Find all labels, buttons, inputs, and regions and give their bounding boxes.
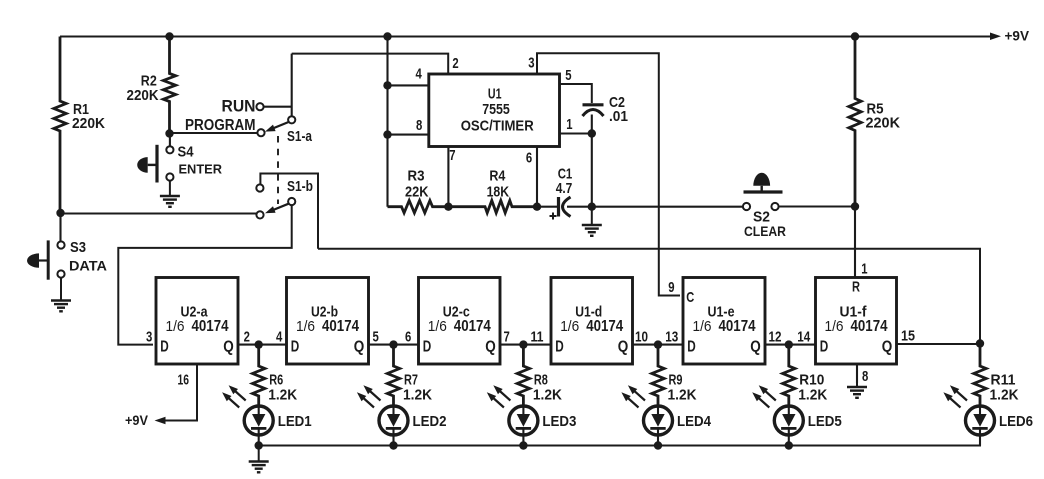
svg-text:1/6: 1/6 bbox=[560, 318, 579, 335]
svg-text:S3: S3 bbox=[70, 239, 86, 256]
wire S1-a to pin 2 of U1 bbox=[292, 54, 449, 74]
flip-flop U2-a 1/6 40174 bbox=[156, 278, 238, 365]
svg-text:CLEAR: CLEAR bbox=[744, 223, 786, 239]
wire Q to D chain at x788 bbox=[765, 344, 816, 346]
resistor R11 bbox=[974, 345, 986, 406]
svg-text:+9V: +9V bbox=[125, 412, 149, 428]
node bottom rail junction x258 bbox=[255, 441, 263, 449]
node bottom rail junction x523 bbox=[519, 441, 527, 449]
wire junction to S3 bbox=[59, 213, 61, 242]
LED LED3 light arrows bbox=[490, 395, 504, 408]
svg-text:D: D bbox=[555, 339, 564, 356]
flip-flop U2-c 1/6 40174 bbox=[419, 278, 501, 365]
switch S1-a bbox=[288, 116, 295, 123]
svg-text:2: 2 bbox=[244, 329, 250, 346]
pin 4 stub bbox=[388, 84, 429, 86]
wire Q15 of U1-f to feedback column bbox=[897, 343, 981, 345]
node junction pin7/R3/R4 bbox=[444, 203, 452, 211]
svg-text:40174: 40174 bbox=[586, 318, 623, 335]
resistor R7 bbox=[387, 345, 399, 406]
svg-text:40174: 40174 bbox=[719, 318, 756, 335]
pin 7 wire bbox=[447, 147, 449, 207]
node bottom rail junction x393 bbox=[389, 441, 397, 449]
svg-text:11: 11 bbox=[531, 329, 544, 346]
wire C2 to ground junction bbox=[591, 134, 593, 207]
svg-text:D: D bbox=[820, 339, 829, 356]
capacitor C1 bbox=[537, 206, 557, 208]
wire S1-a riser to pin 2 link bbox=[291, 54, 293, 117]
wire LED1 to bottom rail bbox=[258, 435, 260, 446]
svg-text:8: 8 bbox=[416, 117, 422, 134]
svg-text:40174: 40174 bbox=[454, 318, 491, 335]
svg-text:S4: S4 bbox=[178, 144, 195, 161]
svg-text:40174: 40174 bbox=[851, 318, 888, 335]
wire S1-b pole down and left bbox=[118, 205, 291, 345]
svg-text:1: 1 bbox=[861, 261, 867, 278]
LED LED6 light arrows bbox=[947, 395, 961, 408]
svg-text:7: 7 bbox=[449, 147, 455, 164]
svg-text:18K: 18K bbox=[487, 183, 510, 200]
node bottom rail junction x788 bbox=[785, 441, 793, 449]
wire mechanical link dashed S1 bbox=[277, 136, 279, 204]
wire ground junction to S2 bbox=[592, 206, 743, 208]
resistor R5 bbox=[849, 37, 861, 207]
svg-text:10: 10 bbox=[635, 329, 648, 346]
svg-text:D: D bbox=[291, 339, 300, 356]
svg-text:220K: 220K bbox=[127, 87, 159, 104]
pin 5 stub and wire to C2 bbox=[560, 84, 592, 103]
svg-text:7555: 7555 bbox=[482, 101, 510, 118]
svg-text:U1: U1 bbox=[488, 86, 502, 103]
svg-text:1/6: 1/6 bbox=[825, 318, 844, 335]
svg-text:Q: Q bbox=[618, 339, 629, 356]
LED LED3 bbox=[509, 406, 538, 435]
wire LED2 to bottom rail bbox=[392, 435, 394, 446]
svg-text:OSC/TIMER: OSC/TIMER bbox=[461, 118, 534, 135]
resistor R2 bbox=[163, 37, 175, 134]
wire Q to D chain at x658 bbox=[633, 344, 684, 346]
pin 8 stub bbox=[388, 134, 429, 136]
node junction R2/S4/PROGRAM bbox=[165, 129, 173, 137]
svg-text:3: 3 bbox=[528, 54, 534, 71]
LED LED1 bbox=[244, 406, 273, 435]
wire LED4 to bottom rail bbox=[657, 435, 659, 446]
node junction pin1/C2 bbox=[588, 129, 596, 137]
LED LED1 light arrows bbox=[225, 395, 239, 408]
node junction R2 top rail bbox=[165, 32, 173, 40]
wire S1-b upper contact to feedback line bbox=[260, 174, 318, 249]
svg-text:22K: 22K bbox=[405, 183, 429, 200]
node junction pin6/R4/C1 bbox=[533, 203, 541, 211]
svg-text:13: 13 bbox=[665, 329, 678, 346]
resistor R10 bbox=[783, 345, 795, 406]
svg-text:C: C bbox=[686, 289, 694, 306]
svg-text:4: 4 bbox=[276, 329, 283, 346]
wire S2 to R5 junction bbox=[779, 205, 856, 207]
svg-text:8: 8 bbox=[862, 368, 868, 385]
svg-text:1/6: 1/6 bbox=[166, 318, 185, 335]
svg-text:7: 7 bbox=[504, 329, 510, 346]
node junction x393 bbox=[389, 340, 397, 348]
LED LED4 light arrows bbox=[625, 395, 639, 408]
pin 1 stub bbox=[560, 132, 592, 134]
svg-text:LED5: LED5 bbox=[808, 413, 842, 430]
node junction Q15/R11/feedback bbox=[976, 339, 984, 347]
svg-text:D: D bbox=[423, 339, 432, 356]
pushbutton S3 DATA bbox=[57, 241, 64, 248]
node bottom rail junction x658 bbox=[654, 441, 662, 449]
node RUN contact bbox=[256, 103, 263, 110]
svg-text:Q: Q bbox=[354, 339, 365, 356]
svg-text:1.2K: 1.2K bbox=[798, 387, 827, 404]
svg-text:LED6: LED6 bbox=[999, 413, 1033, 430]
svg-text:220K: 220K bbox=[866, 115, 901, 132]
svg-text:LED2: LED2 bbox=[413, 413, 447, 430]
svg-text:15: 15 bbox=[901, 328, 915, 345]
node junction rail x387 bbox=[383, 32, 391, 40]
flip-flop U1-e 1/6 40174 bbox=[683, 278, 765, 365]
ground below S3 bbox=[60, 277, 62, 300]
node junction R5 top rail bbox=[851, 32, 859, 40]
node junction x658 bbox=[654, 340, 662, 348]
svg-text:14: 14 bbox=[797, 329, 811, 346]
wire R2 junction to S4 bbox=[169, 134, 171, 147]
LED LED5 light arrows bbox=[755, 395, 769, 408]
svg-text:PROGRAM: PROGRAM bbox=[185, 117, 256, 134]
svg-text:Q: Q bbox=[882, 339, 893, 356]
pushbutton S4 ENTER bbox=[166, 146, 173, 153]
svg-text:1.2K: 1.2K bbox=[403, 387, 432, 404]
svg-text:LED3: LED3 bbox=[542, 413, 576, 430]
node junction x258 bbox=[255, 340, 263, 348]
svg-text:1/6: 1/6 bbox=[693, 318, 712, 335]
svg-text:D: D bbox=[687, 339, 696, 356]
svg-text:LED4: LED4 bbox=[677, 413, 712, 430]
node +9V arrow bbox=[990, 33, 1001, 41]
svg-text:4.7: 4.7 bbox=[556, 180, 573, 197]
svg-text:Q: Q bbox=[750, 339, 761, 356]
ground below S4 bbox=[169, 181, 171, 196]
svg-text:1/6: 1/6 bbox=[296, 318, 315, 335]
pin 8 wire of U1-f to ground bbox=[856, 364, 858, 383]
wire junction to S1-b lower contact bbox=[61, 212, 257, 214]
svg-text:RUN: RUN bbox=[222, 97, 256, 116]
LED LED2 bbox=[379, 406, 408, 435]
svg-text:1/6: 1/6 bbox=[428, 318, 447, 335]
wire +9V top rail bbox=[60, 35, 993, 37]
node junction C1/ground/S2 line bbox=[588, 203, 596, 211]
svg-text:5: 5 bbox=[373, 329, 379, 346]
LED LED4 bbox=[644, 406, 673, 435]
pin 3 wire to clock line bbox=[537, 53, 680, 295]
pin 16 wire of U2-a to +9V bbox=[165, 364, 197, 421]
resistor R6 bbox=[253, 345, 265, 406]
pushbutton S2 CLEAR bbox=[743, 203, 750, 210]
svg-text:R3: R3 bbox=[408, 167, 425, 184]
node PROGRAM contact bbox=[257, 129, 264, 136]
node junction x788 bbox=[785, 340, 793, 348]
node junction R5/S2/reset bbox=[851, 202, 859, 210]
svg-text:LED1: LED1 bbox=[278, 413, 312, 430]
wire LED3 to bottom rail bbox=[522, 435, 524, 446]
wire R5 junction to R pin of U1-f bbox=[854, 207, 856, 278]
pin 6 wire bbox=[536, 147, 538, 207]
flip-flop U1-d 1/6 40174 bbox=[551, 278, 633, 365]
svg-text:D: D bbox=[160, 339, 169, 356]
svg-text:12: 12 bbox=[769, 329, 782, 346]
svg-text:R4: R4 bbox=[489, 167, 506, 184]
svg-text:2: 2 bbox=[452, 55, 458, 72]
svg-text:16: 16 bbox=[178, 371, 190, 388]
svg-text:S1-a: S1-a bbox=[287, 128, 313, 145]
capacitor C2 bbox=[583, 103, 604, 106]
resistor R3 bbox=[388, 201, 449, 213]
svg-text:40174: 40174 bbox=[192, 318, 229, 335]
wire PROGRAM contact to R2 junction bbox=[171, 132, 258, 134]
wire feedback line to LED6 column bbox=[318, 249, 980, 342]
LED LED5 bbox=[774, 406, 803, 435]
svg-text:S1-b: S1-b bbox=[287, 178, 313, 195]
wire RUN contact to S1-a riser bbox=[264, 106, 292, 108]
svg-text:.01: .01 bbox=[609, 108, 628, 125]
svg-text:1.2K: 1.2K bbox=[990, 387, 1019, 404]
wire Q to D chain at x523 bbox=[500, 344, 551, 346]
resistor R1 bbox=[54, 37, 66, 214]
LED LED6 bbox=[966, 406, 995, 435]
wire LED6 to bottom rail bbox=[979, 435, 981, 446]
svg-text:9: 9 bbox=[668, 279, 674, 296]
ground below C1 bbox=[591, 207, 593, 225]
svg-text:4: 4 bbox=[416, 66, 423, 83]
wire LED bottom rail bbox=[259, 434, 980, 446]
resistor R9 bbox=[652, 345, 664, 406]
LED LED2 light arrows bbox=[360, 395, 374, 408]
svg-text:1: 1 bbox=[566, 116, 572, 133]
ground below LED1 bbox=[258, 446, 260, 462]
node junction R1/S3/S1-b bbox=[56, 209, 64, 217]
svg-text:ENTER: ENTER bbox=[179, 162, 223, 177]
node junction x523 bbox=[519, 340, 527, 348]
svg-text:DATA: DATA bbox=[69, 258, 107, 274]
svg-text:5: 5 bbox=[565, 67, 571, 84]
wire +9V rail to pins 4 and 8 and R3 bbox=[386, 37, 388, 207]
wire Q to D chain at x258 bbox=[238, 344, 287, 346]
svg-text:1.2K: 1.2K bbox=[668, 387, 697, 404]
resistor R4 bbox=[448, 201, 537, 213]
svg-text:Q: Q bbox=[223, 339, 234, 356]
svg-text:Q: Q bbox=[485, 339, 496, 356]
ground below U1-f pin 8 bbox=[856, 383, 858, 387]
svg-text:1.2K: 1.2K bbox=[268, 387, 297, 404]
svg-text:3: 3 bbox=[146, 329, 152, 346]
resistor R8 bbox=[517, 345, 529, 406]
svg-text:1.2K: 1.2K bbox=[533, 387, 562, 404]
svg-text:+9V: +9V bbox=[1005, 27, 1030, 43]
svg-text:40174: 40174 bbox=[322, 318, 359, 335]
flip-flop U1-f 1/6 40174 bbox=[816, 278, 897, 365]
switch S1-b bbox=[256, 184, 263, 191]
wire LED5 to bottom rail bbox=[788, 435, 790, 446]
wire Q to D chain at x393 bbox=[369, 344, 419, 346]
svg-text:R: R bbox=[852, 279, 860, 296]
op-amp U1 7555 box bbox=[429, 74, 560, 147]
svg-text:6: 6 bbox=[405, 329, 411, 346]
svg-text:220K: 220K bbox=[72, 115, 105, 132]
svg-text:6: 6 bbox=[526, 150, 532, 167]
flip-flop U2-b 1/6 40174 bbox=[287, 278, 369, 365]
